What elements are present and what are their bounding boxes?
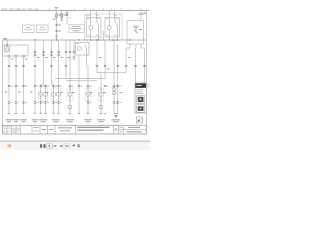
ground G1 <box>73 57 76 59</box>
wire relay feeds <box>91 11 115 18</box>
wire W14 <box>73 40 75 57</box>
relay K1 <box>87 18 102 38</box>
battery sensor box <box>127 21 144 45</box>
injector pair L1 L2 <box>39 88 48 101</box>
legend connector box <box>135 83 146 113</box>
border frame left <box>2 40 4 134</box>
wire W3 <box>23 57 25 113</box>
wire W12 <box>65 40 67 79</box>
wire W6 <box>51 40 53 85</box>
border frame top <box>1 10 150 12</box>
wire W13 <box>69 40 71 114</box>
toolbar prev page button <box>40 144 42 147</box>
mid bus jog 3 <box>66 80 97 82</box>
viewer toolbar background <box>0 142 150 150</box>
relay K2 <box>105 18 120 38</box>
wire W16 <box>86 55 88 66</box>
wire W7 <box>58 40 60 85</box>
wire W20 <box>104 40 106 79</box>
label BATTERY <box>138 14 145 15</box>
toolbar zoom level <box>64 144 70 148</box>
wire W21 <box>113 40 115 114</box>
wire W11 <box>57 85 59 114</box>
inline connectors row 4 <box>8 102 122 103</box>
wire inter-relay drop <box>102 31 104 40</box>
wire color codes <box>5 57 131 93</box>
solenoid L9 lower coil <box>99 105 103 109</box>
wire battery feed <box>140 11 142 21</box>
terminal mark top right <box>144 12 147 13</box>
relay K3 <box>76 43 90 56</box>
component name labels <box>6 119 121 122</box>
mid bus jog 2 <box>97 72 126 74</box>
wire W25 <box>144 48 146 83</box>
wire W22 <box>117 44 119 114</box>
fuse F1 15A feed <box>53 7 61 40</box>
border frame right <box>145 11 147 134</box>
wire W15 <box>78 55 80 114</box>
solenoid L5 <box>98 88 104 101</box>
bus B+ rail <box>3 39 147 41</box>
injector pair L3 L4 <box>51 88 60 101</box>
wire relay outputs <box>90 37 118 41</box>
label box ECM-2 <box>37 25 48 33</box>
ground G2 <box>114 114 118 118</box>
inline connectors row 1 <box>34 51 75 56</box>
jog link <box>87 65 89 67</box>
legend side text <box>147 84 149 87</box>
wire W8 <box>40 85 42 114</box>
relay enclosure box <box>85 14 123 40</box>
label box ECM-1 <box>23 25 34 33</box>
wire W19 <box>100 73 102 114</box>
wire jog links <box>41 84 54 86</box>
inline connectors row 2 <box>8 65 146 66</box>
wire W1 <box>8 57 10 113</box>
solenoid L4 <box>85 88 91 101</box>
junction block JB <box>3 44 28 57</box>
bus junction dots <box>34 39 130 40</box>
connector symbol N <box>137 117 143 123</box>
wire W9 <box>45 85 47 114</box>
wire bus to JB <box>6 40 8 44</box>
wire W24 <box>135 48 137 83</box>
wire W18 <box>96 40 98 73</box>
solenoid L6 twin coil <box>112 87 115 94</box>
label box ECM main <box>69 25 84 33</box>
mid bus jog 1 <box>55 78 105 80</box>
solenoid L8 lower coil <box>68 105 72 109</box>
viewer page edge <box>0 140 150 142</box>
header text <box>1 8 38 11</box>
JB corner label <box>3 38 7 39</box>
wire W2 <box>15 57 17 113</box>
toolbar zoom in <box>73 144 76 147</box>
solenoid L5 <box>67 88 73 101</box>
fuse F2 feed <box>60 11 66 21</box>
toolbar folder icon <box>8 144 11 147</box>
title block <box>3 125 147 134</box>
toolbar page count <box>54 145 57 147</box>
node B+ <box>66 11 72 25</box>
wire W5 <box>43 40 45 85</box>
wire battery outputs <box>126 44 145 48</box>
wire W17 <box>87 66 89 114</box>
connector ends row <box>8 113 106 115</box>
inline connectors row 3 <box>8 85 122 86</box>
wire W4 <box>34 40 36 114</box>
zone ticks <box>19 9 141 11</box>
toolbar expand <box>78 144 80 147</box>
wire W10 <box>52 85 54 114</box>
wire W23 <box>125 48 127 73</box>
toolbar page field <box>47 144 52 148</box>
toolbar next page button <box>44 144 46 147</box>
toolbar zoom out <box>60 145 62 147</box>
